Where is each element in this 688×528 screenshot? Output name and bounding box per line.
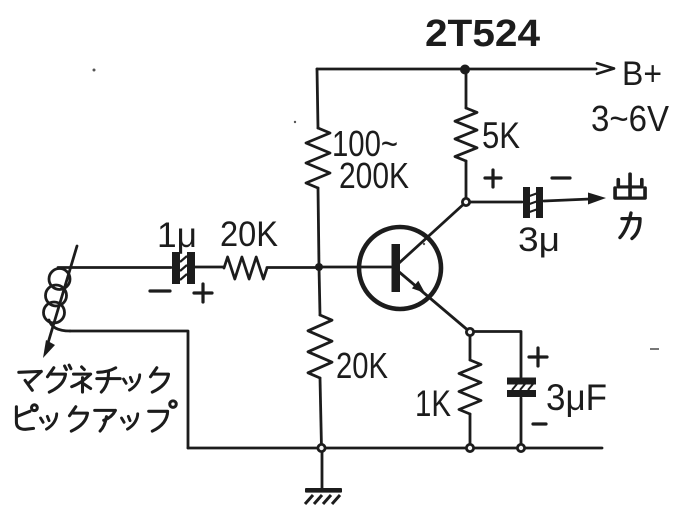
svg-text:20K: 20K (336, 345, 388, 386)
svg-text:3μF: 3μF (546, 377, 607, 418)
svg-text:3μ: 3μ (518, 221, 560, 259)
svg-text:5K: 5K (482, 115, 520, 156)
svg-text:3~6V: 3~6V (591, 98, 669, 139)
svg-text:200K: 200K (339, 155, 409, 196)
svg-text:1μ: 1μ (157, 216, 197, 255)
svg-text:1K: 1K (415, 383, 451, 424)
svg-text:20K: 20K (220, 215, 278, 254)
svg-text:2T524: 2T524 (425, 13, 540, 55)
svg-text:B+: B+ (622, 55, 662, 93)
